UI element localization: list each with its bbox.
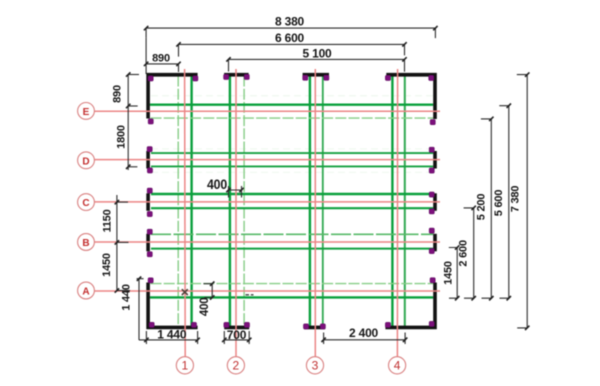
tick lead row B xyxy=(117,241,129,243)
wall bar: top-left corner bracket xyxy=(146,73,197,119)
beam column 1 left edge (light green dashed) xyxy=(177,76,179,327)
wall bar: right stub row D xyxy=(433,151,437,169)
pile at right arm top (bottom-right) xyxy=(430,278,435,283)
pile at top bar col1 right end xyxy=(193,76,198,81)
wall bar: top stub column 3 xyxy=(303,73,329,77)
svg-text:400: 400 xyxy=(207,176,227,192)
svg-text:1: 1 xyxy=(182,358,189,372)
dimension 700 bottom line xyxy=(224,331,249,344)
wall bar: top stub column 2 xyxy=(224,73,249,77)
pile at left arm top (bottom-left) xyxy=(148,278,153,283)
svg-text:5 600: 5 600 xyxy=(493,190,505,217)
svg-text:4: 4 xyxy=(394,358,401,372)
beam column 1 right edge (green solid) xyxy=(190,75,192,327)
grid line C (pink) xyxy=(94,201,440,203)
beam column 3 right edge (light green dashed) xyxy=(322,76,324,327)
ghost beam edge line below row D xyxy=(151,171,433,173)
beam width 400 bracket at column 2 xyxy=(229,186,242,198)
pile at bottom stub col3 left xyxy=(303,324,308,329)
grid line A (pink) xyxy=(94,290,440,292)
small dashes on row A near column 3 xyxy=(246,294,254,296)
beam width 400 bracket at row A xyxy=(204,284,213,298)
beam row B top edge (green) xyxy=(151,233,433,235)
svg-text:1 440: 1 440 xyxy=(121,284,133,311)
dimension 6600 line xyxy=(179,44,405,56)
wall bar: bottom stub column 2 xyxy=(224,326,249,330)
dimension texts xyxy=(101,14,522,342)
bottom dim ticks xyxy=(144,338,148,342)
tick lead row A xyxy=(117,290,130,292)
right dim 5600 line xyxy=(499,106,509,299)
tick lead row C xyxy=(117,201,128,203)
tick lead top edge xyxy=(128,74,139,76)
grid line D (pink) xyxy=(94,159,440,161)
wall bar: left stub row C xyxy=(146,193,150,211)
svg-text:3: 3 xyxy=(312,358,319,372)
pile at top-right corner xyxy=(429,75,434,80)
wall bar: top-right corner bracket xyxy=(386,73,437,119)
beam row D top edge (green) xyxy=(151,152,433,154)
svg-text:1450: 1450 xyxy=(442,261,454,285)
grid line 2 (pink vertical) xyxy=(235,69,237,357)
svg-text:1150: 1150 xyxy=(102,209,114,232)
svg-text:2 600: 2 600 xyxy=(458,240,470,267)
beam row C bottom edge (green) xyxy=(151,207,433,209)
right dim 2600 line xyxy=(464,208,474,298)
svg-text:2 400: 2 400 xyxy=(349,326,379,340)
grid line B (pink) xyxy=(94,241,440,243)
grid bubble D xyxy=(78,152,95,169)
pile at bottom-left corner xyxy=(149,322,154,327)
svg-text:5 100: 5 100 xyxy=(302,47,332,61)
pile at left stub D top xyxy=(147,147,152,152)
right dim 5200 line xyxy=(481,119,491,298)
grid bubble C xyxy=(78,194,95,211)
ghost beam edge line above row D xyxy=(151,148,433,150)
grid bubble A xyxy=(78,282,95,299)
400 bracket ticks xyxy=(226,188,230,192)
pile at right stub D top xyxy=(429,147,434,152)
grid line 1 (pink vertical) xyxy=(184,69,187,357)
beam row A bottom edge (green solid) xyxy=(150,296,433,298)
pile at bottom stub col2 right xyxy=(244,322,249,327)
pile at left arm bottom (top-left) xyxy=(148,119,153,124)
dimension 890 top line xyxy=(146,64,178,72)
pile at right stub D bottom xyxy=(429,168,434,173)
svg-text:400: 400 xyxy=(199,298,211,317)
pile squares top edge xyxy=(147,74,435,329)
grid bubble 1 xyxy=(176,357,193,374)
pile at bottom bar col1 right end xyxy=(191,322,196,327)
dimension 8380 left extension to plan xyxy=(145,38,147,74)
svg-text:1 440: 1 440 xyxy=(157,328,187,342)
right dim ticks xyxy=(455,245,459,249)
right dim 1450 line xyxy=(449,248,457,299)
svg-text:8 380: 8 380 xyxy=(275,14,305,28)
beam column 3 left edge (green solid) xyxy=(309,75,311,327)
right dim 7380 line xyxy=(517,75,527,328)
svg-text:B: B xyxy=(82,238,89,249)
pile at left stub C bottom xyxy=(147,211,152,216)
pile at left stub C top xyxy=(147,188,152,193)
pile at right stub C bottom xyxy=(429,209,434,214)
left chain ticks xyxy=(126,72,130,76)
pile at top stub col3 right xyxy=(324,75,329,80)
dimension 1440 bottom line xyxy=(139,331,198,344)
pile at top bar col4 left end xyxy=(385,75,390,80)
pile at top stub col3 left xyxy=(303,75,308,80)
pile at right arm bottom (top-right) xyxy=(430,120,435,125)
beam column 4 left edge (green solid) xyxy=(391,75,393,327)
wall bar: bottom-right corner bracket xyxy=(385,283,436,330)
grid bubble E xyxy=(78,103,95,120)
beam row C top edge (green solid) xyxy=(151,193,433,195)
pile at bottom stub col2 left xyxy=(224,322,229,327)
wall bar: left stub row D xyxy=(146,151,150,169)
dimension 5100 line xyxy=(229,59,405,71)
dimension 1440 vertical line xyxy=(137,279,144,340)
pile at right stub B top xyxy=(429,228,434,233)
grid line 3 (pink vertical) xyxy=(314,69,316,357)
left dim chain lower (1150/1450) xyxy=(116,195,118,291)
tick lead row E xyxy=(128,105,138,107)
grid bubble 4 xyxy=(389,357,406,374)
pile at top stub col2 right xyxy=(244,74,249,79)
svg-text:2: 2 xyxy=(233,358,240,372)
grid bubble 3 xyxy=(306,357,323,374)
tick lead row D xyxy=(128,166,137,168)
svg-text:6 600: 6 600 xyxy=(275,31,305,45)
dimension 2400 bottom line xyxy=(324,333,406,345)
wall bar: left stub row B xyxy=(146,234,150,252)
pile at bottom-right corner xyxy=(429,321,434,326)
ghost beam edge line above row E xyxy=(151,95,433,97)
beam column 2 left edge (green solid) xyxy=(229,75,231,327)
pile at bottom bar col4 left end xyxy=(385,322,390,327)
beam column 4 right edge (light green dashed) xyxy=(404,76,406,327)
marker X at grid A/1 xyxy=(182,289,188,295)
pile at left stub B bottom xyxy=(147,252,152,257)
grid line E (pink) xyxy=(94,110,440,112)
pile at top stub col2 left xyxy=(224,74,229,79)
svg-text:1800: 1800 xyxy=(115,125,127,149)
wall bar: bottom-left corner bracket xyxy=(146,283,197,330)
svg-text:890: 890 xyxy=(152,53,170,65)
beam column 2 right edge (light green dashed) xyxy=(243,76,245,327)
svg-text:E: E xyxy=(83,107,90,118)
wall bar: right stub row B xyxy=(433,234,437,252)
grid bubble B xyxy=(78,234,95,251)
svg-text:D: D xyxy=(82,156,89,167)
svg-text:C: C xyxy=(82,198,89,209)
grid line 4 (pink vertical) xyxy=(396,69,398,357)
pile at left stub B top xyxy=(147,229,152,234)
svg-text:1450: 1450 xyxy=(101,253,113,277)
beam row E top edge (green solid) xyxy=(150,103,433,105)
grid bubble 2 xyxy=(227,357,244,374)
left dim chain upper (890/1800) xyxy=(127,75,129,171)
svg-text:7 380: 7 380 xyxy=(510,186,522,213)
beam row E bottom edge (light green dashed) xyxy=(151,117,434,119)
pile at top-left corner xyxy=(148,76,153,81)
dimension 8380 line xyxy=(146,28,435,38)
beam row A top edge (light green dashed) xyxy=(151,283,434,285)
svg-text:890: 890 xyxy=(112,85,124,103)
svg-text:700: 700 xyxy=(227,328,247,342)
svg-text:5 200: 5 200 xyxy=(476,194,488,221)
pile at right stub B bottom xyxy=(429,248,434,253)
wall bar: bottom stub column 3 xyxy=(304,326,325,330)
beam row D bottom edge (green) xyxy=(151,165,433,167)
pile at bottom stub col3 right xyxy=(320,324,325,329)
wall bar: right stub row C xyxy=(433,193,437,211)
pile at right stub C top xyxy=(429,192,434,197)
pile at left stub D bottom xyxy=(147,168,152,173)
beam row B bottom edge (green) xyxy=(151,248,433,250)
svg-text:A: A xyxy=(82,287,89,298)
dimension end ticks (oblique) xyxy=(115,26,530,342)
